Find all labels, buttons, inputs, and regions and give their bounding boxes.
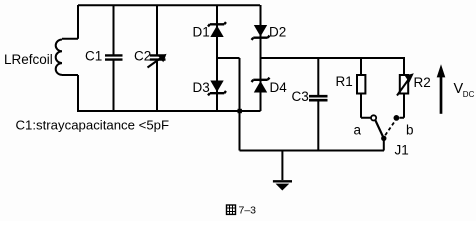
svg-text:D4: D4 <box>270 80 288 95</box>
svg-text:LRefcoil: LRefcoil <box>4 52 53 67</box>
arrowhead of C2 variable arrow <box>159 54 167 62</box>
resistor R1 <box>357 75 365 94</box>
svg-text:C1: C1 <box>85 49 102 64</box>
wire right rail output <box>261 57 406 59</box>
caption figure 7-3 glyph box <box>227 205 236 214</box>
wire bottom rail of tank box <box>78 110 261 112</box>
svg-text:J1: J1 <box>395 143 409 158</box>
wire top rail of tank box <box>78 4 260 6</box>
svg-text:D3: D3 <box>193 80 210 95</box>
diode D3 <box>208 81 226 96</box>
svg-text:C3: C3 <box>292 89 309 104</box>
wire left edge lower <box>77 75 79 112</box>
capacitor C2 (variable) <box>150 55 166 59</box>
wire bridge mid tap to vertical <box>217 58 240 151</box>
diode D2 <box>252 25 270 40</box>
svg-text:R1: R1 <box>336 74 353 89</box>
wire ground stub <box>281 151 283 181</box>
inductor L Ref coil <box>56 39 78 75</box>
wire R1 branch <box>361 58 371 118</box>
switch J1 pivot dot <box>381 136 386 141</box>
svg-text:7–3: 7–3 <box>239 205 257 217</box>
switch J1 contact b (filled dot) <box>394 115 400 121</box>
diode D4 <box>252 78 270 93</box>
capacitor C1 <box>105 55 123 59</box>
capacitor C3 <box>309 96 328 100</box>
svg-text:R2: R2 <box>414 75 431 90</box>
wire left edge upper <box>77 5 79 39</box>
resistor R2 (variable) <box>400 75 408 94</box>
diode D1 <box>208 22 226 37</box>
arrow V DC <box>437 64 446 114</box>
svg-text:DC: DC <box>463 90 475 99</box>
svg-text:D1: D1 <box>193 24 210 39</box>
switch J1 contact a (open circle) <box>371 115 376 120</box>
svg-text:C2: C2 <box>134 49 151 64</box>
svg-text:D2: D2 <box>269 24 286 39</box>
ground <box>273 181 292 190</box>
junction at bridge bottom node <box>238 109 242 113</box>
wire bottom common rail <box>240 150 385 152</box>
wire switch pivot to rail <box>383 139 385 151</box>
arrowhead of R2 variable arrow <box>405 73 414 82</box>
switch J1 dashed throw to b <box>385 121 395 136</box>
wire C2 branch <box>156 5 158 111</box>
svg-text:C1:straycapacitance <5pF: C1:straycapacitance <5pF <box>16 118 170 133</box>
wire C1 branch <box>113 5 115 111</box>
svg-text:a: a <box>354 123 362 138</box>
svg-text:b: b <box>406 123 414 138</box>
wire R2 branch <box>400 58 405 118</box>
wire D2 D4 branch <box>260 5 262 111</box>
wire C3 branch <box>317 58 319 151</box>
switch J1 lever (thrown to a) <box>375 120 383 138</box>
wire D1 D3 branch <box>216 5 218 111</box>
